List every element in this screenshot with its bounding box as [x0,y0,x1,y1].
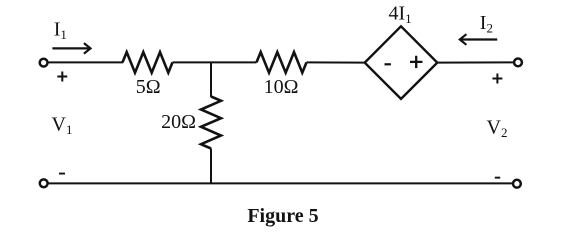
dependent source 4I1 (diamond) [365,26,438,99]
svg-text:5Ω: 5Ω [136,76,161,98]
minus sign V2 [495,177,500,179]
svg-text:Figure 5: Figure 5 [247,205,318,227]
arrow I2 [460,34,497,45]
node: junction of 5ohm,10ohm,20ohm (wire down) [210,62,212,97]
arrow I1 [52,43,90,54]
bottom wire (ground rail) [48,182,512,184]
minus sign V1 [59,173,65,175]
wire: R 20ohm to bottom rail [210,149,212,184]
wire: dependent source to top-right terminal [437,61,513,63]
terminal bottom-right [513,180,521,188]
terminal top-right [514,59,522,67]
plus sign V2 [492,74,502,84]
terminal bottom-left [40,179,48,187]
resistor 20 ohm (vertical) [201,97,221,149]
svg-text:10Ω: 10Ω [264,76,299,98]
wire: top-left terminal to R 5ohm [48,61,123,63]
terminal top-left [40,59,48,67]
wire: R 5ohm to node [173,61,257,63]
resistor 5 ohm [123,52,173,73]
wire: R 10ohm to dependent source [307,61,366,63]
svg-text:20Ω: 20Ω [161,111,196,133]
plus sign inside source [410,56,422,68]
minus sign inside source [385,63,391,65]
plus sign V1 [57,72,67,82]
resistor 10 ohm [257,52,307,73]
